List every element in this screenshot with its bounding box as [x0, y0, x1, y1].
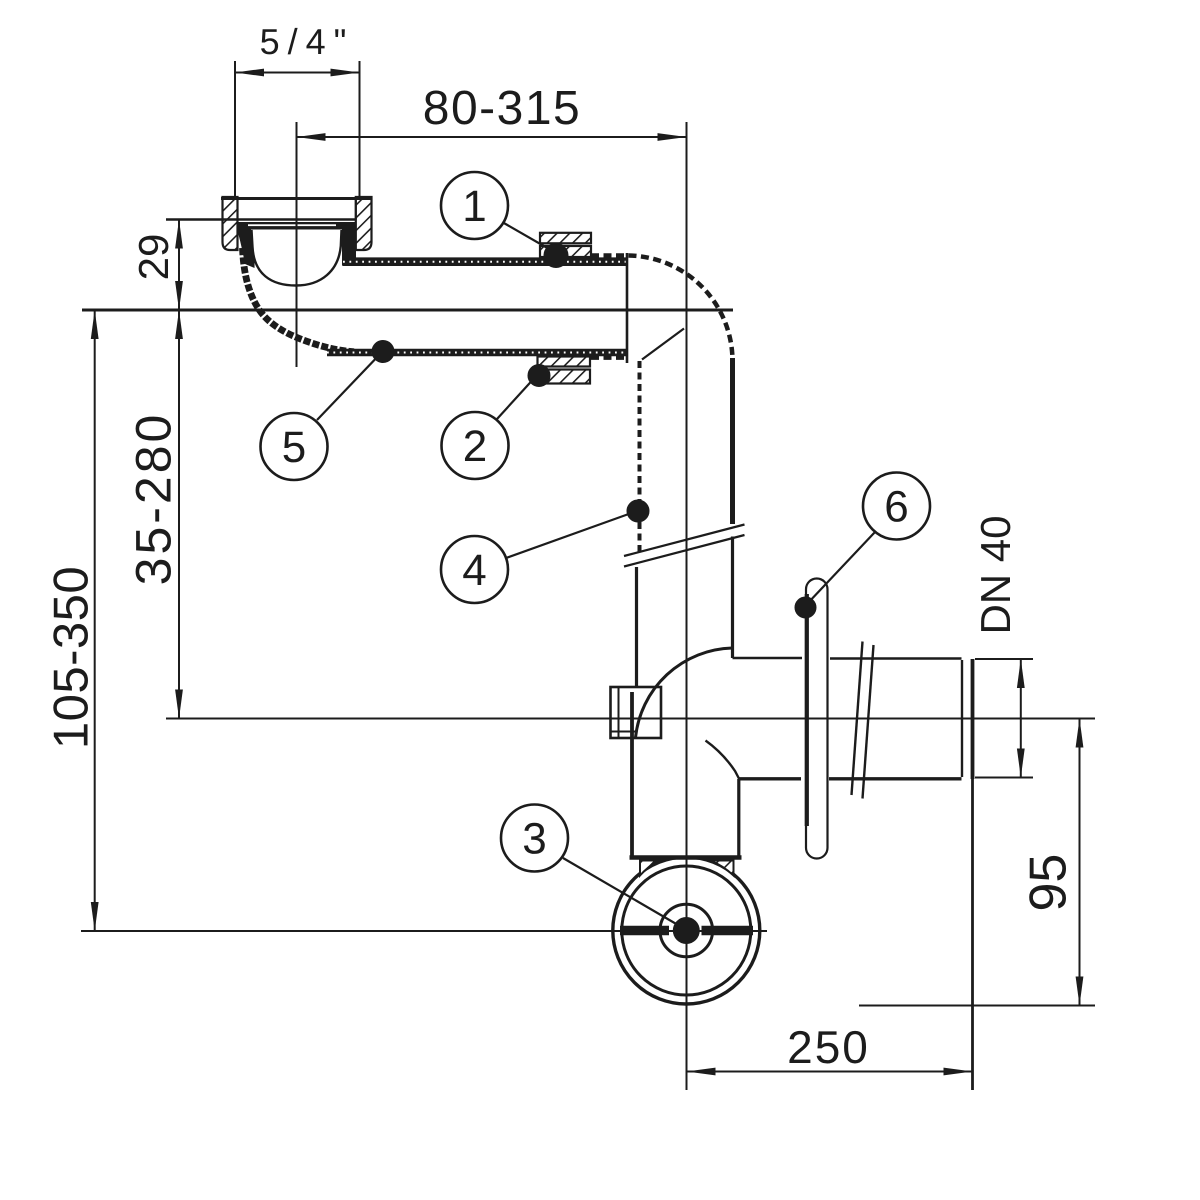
svg-text:105-350: 105-350 — [44, 566, 98, 749]
svg-text:5/4": 5/4" — [260, 21, 355, 62]
svg-text:2: 2 — [463, 422, 487, 471]
svg-text:35-280: 35-280 — [126, 412, 182, 586]
svg-text:29: 29 — [130, 234, 177, 281]
svg-text:5: 5 — [282, 423, 306, 472]
svg-text:1: 1 — [462, 182, 486, 231]
svg-text:3: 3 — [522, 815, 546, 864]
svg-text:250: 250 — [787, 1021, 870, 1073]
svg-text:95: 95 — [1020, 854, 1078, 912]
svg-text:4: 4 — [462, 546, 486, 595]
svg-text:6: 6 — [884, 483, 908, 532]
svg-text:DN 40: DN 40 — [972, 515, 1019, 634]
svg-text:80-315: 80-315 — [423, 82, 581, 135]
